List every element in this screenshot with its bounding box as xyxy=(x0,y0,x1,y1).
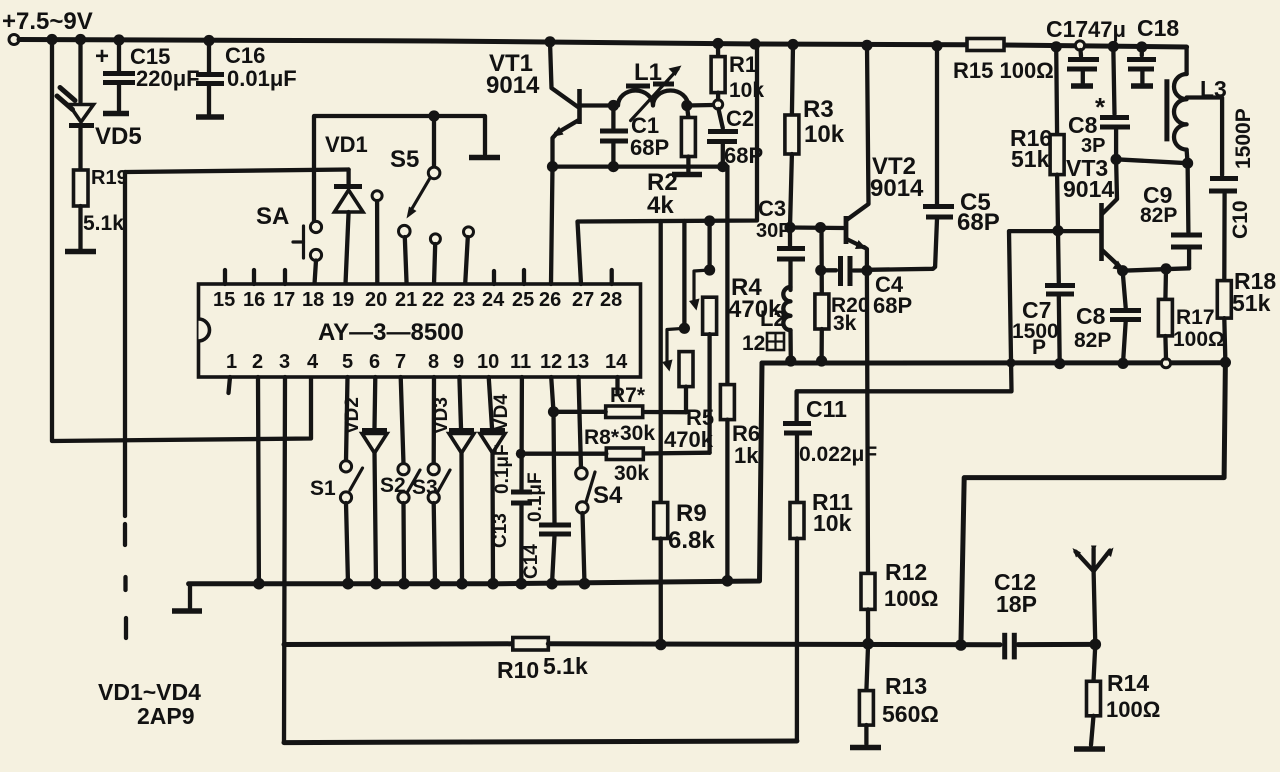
capacitor C3 xyxy=(756,196,805,290)
capacitor C5 xyxy=(868,46,1000,270)
node emitter-C2 xyxy=(717,161,728,172)
svg-text:1500P: 1500P xyxy=(1232,108,1255,169)
node rail-C17 open xyxy=(1075,41,1084,50)
wire +V top rail right of R15 xyxy=(1004,45,1187,47)
wire R19 node horizontal to VD1, vertical V2 xyxy=(125,170,349,639)
node bus pin2 xyxy=(253,578,265,590)
capacitor C17 xyxy=(1046,16,1126,86)
svg-text:C14: C14 xyxy=(521,544,542,579)
node emitter-R17 xyxy=(1160,263,1171,274)
capacitor C18 xyxy=(1127,15,1179,86)
capacitor C9 xyxy=(1140,163,1202,268)
node collector-L3 xyxy=(1182,158,1193,169)
svg-text:5.1k: 5.1k xyxy=(543,653,588,679)
svg-text:9014: 9014 xyxy=(486,72,540,99)
svg-text:C16: C16 xyxy=(225,43,265,68)
wire pin27 net to rail xyxy=(578,44,758,284)
svg-text:17: 17 xyxy=(273,289,295,311)
svg-text:68P: 68P xyxy=(957,209,1000,236)
capacitor C14 xyxy=(521,377,571,584)
pin 15 stub xyxy=(223,270,227,284)
wire right return path xyxy=(961,362,1226,645)
potentiometer R5 xyxy=(662,328,714,452)
svg-text:R8*: R8* xyxy=(584,426,620,449)
resistor R11 xyxy=(790,489,853,741)
wire upper ground bus y363 xyxy=(762,360,1226,365)
resistor R7* xyxy=(554,384,687,449)
inductor L3 xyxy=(1167,47,1227,163)
wire R10/output line xyxy=(284,641,513,647)
svg-text:19: 19 xyxy=(332,289,354,311)
antenna xyxy=(1073,546,1114,645)
svg-text:1: 1 xyxy=(226,351,237,373)
node bus S3 xyxy=(429,578,441,590)
node rail-R3 xyxy=(787,39,798,50)
wire S5/SA ground net (y116) xyxy=(314,116,485,221)
svg-text:S4: S4 xyxy=(593,482,623,509)
svg-text:R10: R10 xyxy=(497,657,539,683)
svg-text:SA: SA xyxy=(256,203,289,230)
wire C11 top line xyxy=(797,231,1100,420)
node pin27net-R4 xyxy=(704,215,715,226)
svg-text:0.1μF: 0.1μF xyxy=(492,444,513,494)
node R10line-R9 xyxy=(655,639,667,651)
svg-text:100Ω: 100Ω xyxy=(1106,697,1160,722)
resistor R3 xyxy=(785,45,845,228)
svg-text:8: 8 xyxy=(428,351,439,373)
wire VT3 collector line xyxy=(1116,159,1188,163)
node rail-R16 xyxy=(1051,41,1062,52)
svg-text:68P: 68P xyxy=(630,135,669,160)
node bus C14 xyxy=(546,578,558,590)
svg-text:6.8k: 6.8k xyxy=(668,527,715,554)
svg-text:C8: C8 xyxy=(1076,303,1106,329)
node busU R17 open xyxy=(1161,359,1170,368)
svg-text:C13: C13 xyxy=(490,513,511,548)
ground C15 xyxy=(103,111,129,117)
svg-text:R19: R19 xyxy=(91,167,128,189)
svg-text:*: * xyxy=(1095,92,1106,122)
svg-text:R12: R12 xyxy=(885,559,927,585)
svg-text:C18: C18 xyxy=(1137,15,1179,41)
ground R14 xyxy=(1074,746,1105,752)
node emitter-C8 xyxy=(1117,265,1128,276)
diode VD4 xyxy=(480,377,512,584)
svg-text:12: 12 xyxy=(540,351,562,373)
svg-text:C2: C2 xyxy=(726,106,754,131)
svg-text:9014: 9014 xyxy=(1063,176,1114,202)
svg-text:VD2: VD2 xyxy=(342,397,363,434)
node rail-C18 xyxy=(1136,41,1147,52)
node base-C3 xyxy=(784,222,795,233)
svg-text:30P: 30P xyxy=(756,220,792,242)
inductor L1 xyxy=(618,59,688,121)
svg-text:VD1: VD1 xyxy=(325,132,368,157)
resistor R13 xyxy=(859,644,938,744)
svg-text:47μ: 47μ xyxy=(1088,17,1126,42)
capacitor C7 xyxy=(1012,231,1075,364)
svg-text:18P: 18P xyxy=(996,591,1037,617)
capacitor C8 output xyxy=(1074,271,1141,364)
terminal pin23 xyxy=(464,227,474,284)
svg-text:R14: R14 xyxy=(1107,670,1149,696)
svg-text:100Ω: 100Ω xyxy=(1173,328,1225,351)
node bus S4 xyxy=(579,578,591,590)
node rail-VT1 xyxy=(544,36,555,47)
svg-text:VD3: VD3 xyxy=(431,397,452,434)
svg-text:11: 11 xyxy=(510,351,531,373)
node tank left xyxy=(608,100,619,111)
node rail-C8b xyxy=(1108,41,1119,52)
svg-text:10k: 10k xyxy=(804,121,845,148)
node R10line-antenna xyxy=(1090,639,1102,651)
node tank right xyxy=(681,100,692,111)
node S5 top xyxy=(428,110,439,121)
wire VT2 emitter down to R12 xyxy=(867,271,868,574)
resistor R1 xyxy=(711,44,764,103)
node rail-VD5 xyxy=(75,34,86,45)
terminal pin22 xyxy=(430,234,440,284)
switch S1 xyxy=(310,377,363,584)
svg-text:0.01μF: 0.01μF xyxy=(227,66,297,91)
ground R13 xyxy=(850,745,881,751)
svg-text:23: 23 xyxy=(453,289,475,311)
diode VD1 xyxy=(325,132,368,284)
switch S5 xyxy=(390,116,440,284)
switch SA xyxy=(256,203,322,284)
svg-text:3P: 3P xyxy=(1081,135,1105,157)
node busU C8 xyxy=(1117,358,1128,369)
svg-text:25: 25 xyxy=(512,289,534,311)
svg-text:470k: 470k xyxy=(664,427,714,452)
node C13-R8 xyxy=(516,449,526,459)
resistor R20 xyxy=(815,228,870,361)
pin 1 stub xyxy=(229,377,231,393)
node rail-V1 xyxy=(46,34,57,45)
terminal pin20 xyxy=(372,191,382,284)
svg-text:10: 10 xyxy=(477,351,499,373)
node bus R6 xyxy=(722,575,734,587)
svg-text:VD5: VD5 xyxy=(95,123,142,150)
diode VD2 xyxy=(342,377,387,584)
node rail-C16 xyxy=(203,35,214,46)
svg-text:R7*: R7* xyxy=(610,384,646,407)
wire VT2 base line xyxy=(790,225,843,230)
node bus VD2 xyxy=(370,578,382,590)
node busU C7 xyxy=(1054,358,1065,369)
node collector-C8b xyxy=(1111,154,1122,165)
resistor R19 xyxy=(74,126,128,249)
capacitor C16 xyxy=(196,41,297,115)
svg-text:15: 15 xyxy=(213,289,235,311)
svg-text:82P: 82P xyxy=(1140,204,1177,227)
svg-text:5.1k: 5.1k xyxy=(83,212,124,235)
svg-text:0.1μF: 0.1μF xyxy=(525,472,546,522)
node bus VD3 xyxy=(456,578,468,590)
node busU C11line xyxy=(1006,358,1015,367)
capacitor C15 xyxy=(95,40,200,110)
svg-text:21: 21 xyxy=(395,289,417,311)
node rail-C5 xyxy=(931,40,942,51)
svg-text:VD1~VD4: VD1~VD4 xyxy=(98,679,201,705)
svg-text:68P: 68P xyxy=(873,293,912,318)
pin 24 stub xyxy=(492,271,496,284)
node rail-pin27net xyxy=(749,38,760,49)
node bus S2 xyxy=(398,578,410,590)
ground S5 net xyxy=(469,155,500,161)
svg-text:R15 100Ω: R15 100Ω xyxy=(953,58,1054,83)
node base-R20 xyxy=(815,222,826,233)
svg-text:16: 16 xyxy=(243,289,265,311)
terminal node R1/C2 xyxy=(714,100,723,109)
node rail-C15 xyxy=(113,34,124,45)
svg-text:R1: R1 xyxy=(729,52,757,77)
svg-text:7: 7 xyxy=(395,351,406,373)
svg-text:100Ω: 100Ω xyxy=(884,586,938,611)
svg-text:R13: R13 xyxy=(885,673,927,699)
diode VD3 xyxy=(431,377,474,584)
capacitor C12 xyxy=(994,569,1095,659)
inductor L2 xyxy=(742,287,791,361)
capacitor C4 xyxy=(821,256,912,318)
pin 14 stub xyxy=(615,377,619,393)
node bus C13 xyxy=(516,578,528,590)
svg-text:82P: 82P xyxy=(1074,329,1111,352)
svg-text:4k: 4k xyxy=(647,192,674,219)
svg-text:R3: R3 xyxy=(803,96,834,123)
svg-text:C3: C3 xyxy=(758,196,786,221)
svg-text:2AP9: 2AP9 xyxy=(137,703,195,729)
node R10line-vert xyxy=(955,639,967,651)
transistor VT3 xyxy=(1063,155,1124,271)
node R5 wiper xyxy=(679,323,690,334)
svg-text:1k: 1k xyxy=(734,443,759,468)
node bus VD4 xyxy=(487,578,499,590)
resistor R14 xyxy=(1087,644,1161,745)
svg-text:R17: R17 xyxy=(1176,306,1215,329)
svg-text:0.022μF: 0.022μF xyxy=(799,443,877,466)
svg-text:2: 2 xyxy=(252,351,263,373)
wire VT3 emitter line xyxy=(1123,268,1190,270)
wire left vertical V1 to pin4 line xyxy=(52,40,311,442)
capacitor C1 xyxy=(600,106,669,167)
svg-text:13: 13 xyxy=(567,351,589,373)
capacitor C11 xyxy=(783,396,877,503)
svg-text:22: 22 xyxy=(422,289,444,311)
ground R2 xyxy=(672,172,702,178)
switch S3 xyxy=(412,377,450,584)
pin 16 stub xyxy=(252,270,256,284)
node bus S1 xyxy=(342,578,354,590)
node VT3base-R16 xyxy=(1052,225,1063,236)
resistor R2 xyxy=(647,106,695,220)
pin 25 stub xyxy=(522,270,526,284)
transistor VT1 xyxy=(486,42,613,167)
svg-text:12: 12 xyxy=(742,332,765,355)
svg-text:AY—3—8500: AY—3—8500 xyxy=(318,319,464,346)
svg-text:18: 18 xyxy=(302,289,324,311)
svg-text:28: 28 xyxy=(600,289,622,311)
node busU corner R18 xyxy=(1220,357,1231,368)
wire VT1 emitter node (y166) xyxy=(553,164,728,168)
svg-text:P: P xyxy=(1032,336,1046,359)
pin 28 stub xyxy=(610,270,614,284)
resistor R17 xyxy=(1158,269,1224,359)
pin 17 stub xyxy=(283,270,287,284)
node pin12-R7 xyxy=(548,406,559,417)
switch S2 xyxy=(380,377,420,584)
resistor R16 xyxy=(1010,47,1064,231)
transistor VT2 xyxy=(846,45,924,270)
wire R5 top xyxy=(682,221,686,328)
svg-text:10k: 10k xyxy=(813,510,852,536)
svg-text:27: 27 xyxy=(572,289,594,311)
svg-text:51k: 51k xyxy=(1232,290,1271,316)
switch S4 xyxy=(576,377,623,584)
wire pin 3 / bottom wire xyxy=(284,377,285,743)
svg-text:14: 14 xyxy=(605,351,628,373)
resistor R6 xyxy=(720,167,760,581)
svg-text:3: 3 xyxy=(279,351,290,373)
svg-text:C10: C10 xyxy=(1229,200,1252,239)
svg-text:4: 4 xyxy=(307,351,319,373)
svg-text:24: 24 xyxy=(482,289,505,311)
wire ground bus xyxy=(189,363,762,584)
supply terminal +7.5~9V xyxy=(2,8,93,45)
svg-text:9014: 9014 xyxy=(870,175,924,202)
svg-text:+7.5~9V: +7.5~9V xyxy=(2,8,93,35)
svg-text:S5: S5 xyxy=(390,146,419,173)
resistor R10 xyxy=(497,638,1000,684)
wire pin 2 xyxy=(256,377,261,584)
svg-text:220μF: 220μF xyxy=(136,66,200,91)
text VD1~VD4 2AP9 xyxy=(98,679,201,729)
node R4 wiper xyxy=(704,264,715,275)
resistor R8* xyxy=(521,448,710,485)
svg-text:VD4: VD4 xyxy=(491,394,512,431)
capacitor C13 xyxy=(490,377,532,584)
capacitor C8* xyxy=(1068,47,1130,160)
resistor R9 xyxy=(654,221,716,645)
node busU R20 xyxy=(816,355,827,366)
wire R4 top xyxy=(707,221,711,270)
ground C16 xyxy=(196,114,224,120)
ground bus symbol xyxy=(172,584,202,611)
svg-text:+: + xyxy=(95,43,109,70)
svg-text:S1: S1 xyxy=(310,477,336,500)
svg-text:560Ω: 560Ω xyxy=(882,701,939,727)
LED VD5 xyxy=(57,40,142,151)
svg-text:R9: R9 xyxy=(676,500,707,527)
resistor R15 xyxy=(953,39,1054,84)
resistor R12 xyxy=(861,559,938,644)
node busU L2 xyxy=(785,355,796,366)
svg-text:3k: 3k xyxy=(833,312,857,335)
wire pin 26 xyxy=(551,167,553,284)
capacitor C2 xyxy=(707,106,763,168)
node rail-R1 xyxy=(712,38,723,49)
capacitor C10 xyxy=(1187,98,1255,281)
node emitter-VT1 xyxy=(547,161,558,172)
svg-text:20: 20 xyxy=(365,289,387,311)
svg-text:5: 5 xyxy=(342,351,353,373)
wire tank to R1/C2 xyxy=(687,103,713,108)
node VT2 emitter xyxy=(861,265,872,276)
svg-text:C17: C17 xyxy=(1046,16,1088,42)
svg-text:30k: 30k xyxy=(620,422,655,445)
node R20-C4 xyxy=(815,265,826,276)
svg-text:9: 9 xyxy=(453,351,464,373)
IC U1 AY-3-8500 xyxy=(199,284,641,377)
resistor R18 xyxy=(1217,268,1276,362)
svg-text:C11: C11 xyxy=(806,396,847,422)
svg-text:6: 6 xyxy=(369,351,380,373)
node R10line-R12 xyxy=(862,638,874,650)
node emitter-C1 xyxy=(608,161,619,172)
potentiometer R4 xyxy=(689,270,782,453)
svg-text:51k: 51k xyxy=(1011,146,1050,172)
ground R19 xyxy=(65,249,96,255)
node rail-VT2 xyxy=(861,40,872,51)
wire +V top rail xyxy=(19,40,967,45)
svg-text:26: 26 xyxy=(539,289,561,311)
